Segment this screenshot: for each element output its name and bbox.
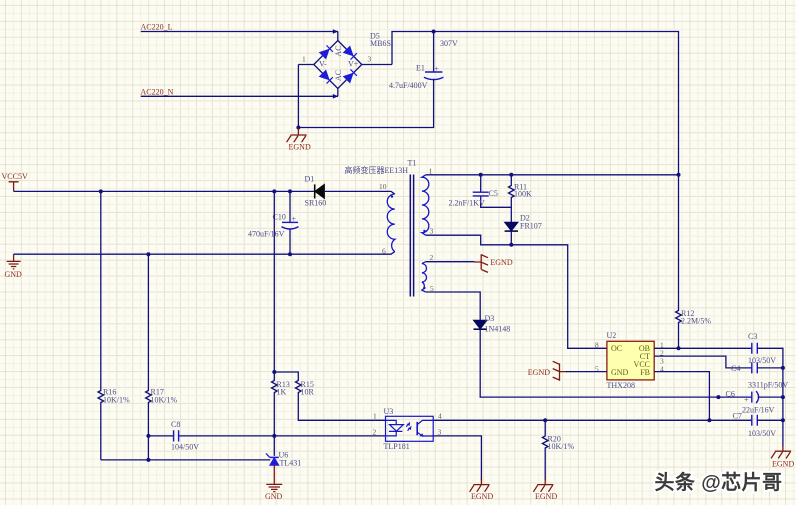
junction C5 tap bbox=[479, 173, 483, 177]
junction OB R12 C3 bbox=[677, 346, 681, 350]
junction R16 tap bbox=[99, 189, 103, 193]
svg-text:EGND: EGND bbox=[772, 459, 794, 468]
wire AC220_L bbox=[141, 31, 338, 33]
svg-text:307V: 307V bbox=[440, 39, 458, 48]
bridge rectifier D5 bbox=[298, 29, 392, 98]
ground EGND opto bbox=[470, 479, 490, 492]
svg-text:EGND: EGND bbox=[535, 492, 557, 501]
svg-text:2.2nF/1KV: 2.2nF/1KV bbox=[449, 199, 485, 208]
resistor R13 bbox=[272, 372, 290, 456]
svg-text:头条 @芯片哥: 头条 @芯片哥 bbox=[655, 470, 783, 494]
wire T1 pin3 to U2 OC bbox=[426, 235, 607, 348]
ground EGND R20 bbox=[533, 479, 553, 492]
svg-text:TLP181: TLP181 bbox=[384, 442, 410, 451]
wire T1 pin5 to D3 bbox=[426, 292, 481, 320]
junction C10 tap bbox=[288, 189, 292, 193]
ground GND left bbox=[5, 254, 23, 279]
svg-text:SR160: SR160 bbox=[305, 199, 327, 208]
junction R17 tap bbox=[146, 252, 150, 256]
resistor R11 bbox=[508, 175, 532, 222]
svg-text:OC: OC bbox=[611, 344, 622, 353]
svg-text:3: 3 bbox=[438, 428, 442, 437]
transistor U6 TL431 bbox=[266, 451, 301, 485]
wire D2 cathode to pin3 run bbox=[510, 231, 512, 245]
svg-text:高频变压器EE13H: 高频变压器EE13H bbox=[345, 165, 409, 175]
svg-text:3311pF/50V: 3311pF/50V bbox=[748, 381, 788, 390]
resistor R20 bbox=[542, 420, 574, 480]
ground EGND pin2 (right-facing) bbox=[474, 254, 488, 272]
junction R20 tap bbox=[543, 418, 547, 422]
svg-text:C5: C5 bbox=[489, 189, 498, 198]
capacitor C4 bbox=[731, 362, 788, 389]
junction C10 bottom bbox=[288, 252, 292, 256]
svg-text:EGND: EGND bbox=[289, 143, 311, 152]
junction C7 rail bbox=[781, 418, 785, 422]
capacitor C6 bbox=[726, 390, 775, 415]
svg-text:1: 1 bbox=[429, 167, 433, 176]
svg-text:GND: GND bbox=[5, 270, 23, 279]
capacitor C8 bbox=[148, 420, 385, 452]
junction C8 on R17 leg bbox=[146, 434, 150, 438]
svg-text:4.7uF/400V: 4.7uF/400V bbox=[389, 81, 428, 90]
svg-text:AC: AC bbox=[334, 70, 343, 81]
junction D2 joins pin3 run bbox=[509, 243, 513, 247]
svg-text:VCC5V: VCC5V bbox=[2, 172, 28, 181]
svg-text:2: 2 bbox=[373, 428, 377, 437]
svg-text:1: 1 bbox=[373, 412, 377, 421]
optocoupler U3 TLP181 bbox=[373, 407, 443, 451]
wire U2 CT to C4 bbox=[654, 356, 752, 368]
wire feedback net to C7 bbox=[433, 419, 752, 421]
svg-text:10: 10 bbox=[379, 182, 387, 191]
svg-text:1: 1 bbox=[302, 55, 306, 64]
svg-text:GND: GND bbox=[611, 368, 629, 377]
svg-text:103/50V: 103/50V bbox=[748, 429, 776, 438]
ground GND under U6 bbox=[265, 484, 283, 501]
wire C7 to right rail bbox=[757, 419, 783, 421]
svg-text:U2: U2 bbox=[607, 331, 617, 340]
capacitor C10 bbox=[248, 191, 299, 254]
svg-text:TL431: TL431 bbox=[280, 459, 302, 468]
T1 core bbox=[410, 175, 413, 297]
svg-text:4: 4 bbox=[438, 412, 442, 421]
junction C4 rail bbox=[781, 366, 785, 370]
svg-text:E1: E1 bbox=[416, 63, 425, 72]
T1 primary winding pins 10-6 bbox=[387, 194, 395, 252]
wire U2 FB down to feedback net bbox=[654, 372, 709, 421]
wire R13 branch bbox=[273, 191, 275, 372]
junction C6 rail bbox=[781, 395, 785, 399]
svg-text:U3: U3 bbox=[384, 407, 394, 416]
wire C6 to right rail bbox=[758, 396, 783, 398]
svg-text:+: + bbox=[744, 395, 749, 404]
junction R11 tap bbox=[509, 173, 513, 177]
svg-text:3: 3 bbox=[430, 227, 434, 236]
svg-text:C7: C7 bbox=[733, 412, 742, 421]
svg-text:22uF/16V: 22uF/16V bbox=[742, 406, 775, 415]
svg-text:V-: V- bbox=[319, 60, 327, 69]
diode D1 bbox=[305, 175, 327, 208]
svg-text:10K/1%: 10K/1% bbox=[151, 396, 178, 405]
wire D3 to VCC aux run bbox=[480, 329, 752, 397]
svg-text:10R: 10R bbox=[301, 388, 315, 397]
svg-text:2: 2 bbox=[430, 253, 434, 262]
svg-text:AC220_L: AC220_L bbox=[141, 23, 173, 32]
junction R17 ref bbox=[146, 458, 150, 462]
svg-text:3: 3 bbox=[368, 55, 372, 64]
wire VCC5V rail bbox=[14, 190, 315, 192]
svg-text:THX208: THX208 bbox=[607, 381, 635, 390]
wire V+ to 307V rail bbox=[392, 32, 679, 175]
junction R13 branch tap bbox=[272, 189, 276, 193]
svg-text:1N4148: 1N4148 bbox=[485, 325, 511, 334]
wire GND rail to T1 pin6 bbox=[14, 252, 395, 255]
resistor R15 bbox=[274, 372, 385, 420]
capacitor C7 bbox=[733, 412, 777, 439]
wire U3 pin3 to EGND bbox=[433, 436, 481, 480]
wire ref rail bbox=[101, 459, 270, 461]
svg-text:V+: V+ bbox=[348, 60, 359, 69]
svg-text:8: 8 bbox=[595, 341, 599, 350]
svg-text:C8: C8 bbox=[171, 420, 180, 429]
svg-text:GND: GND bbox=[265, 492, 283, 501]
svg-text:D1: D1 bbox=[305, 175, 315, 184]
wire D1 to T1 pin10 bbox=[324, 191, 394, 194]
svg-text:C3: C3 bbox=[748, 332, 757, 341]
svg-text:EGND: EGND bbox=[528, 368, 550, 377]
wire V- to EGND and E1 bottom bbox=[298, 32, 433, 128]
wire AC220_N bbox=[141, 95, 338, 97]
svg-text:104/50V: 104/50V bbox=[171, 443, 199, 452]
svg-text:100K: 100K bbox=[514, 190, 532, 199]
wire U2 OB to C3 bbox=[654, 347, 752, 349]
wire C3 to right rail bbox=[757, 348, 783, 446]
op-amp U2 THX208 bbox=[595, 331, 664, 390]
ground EGND bridge bbox=[287, 128, 307, 142]
junction E1 top bbox=[432, 30, 436, 34]
wire EGND to U2 GND bbox=[566, 371, 607, 373]
T1 secondary winding pins 1-3 bbox=[422, 175, 429, 235]
svg-text:2.2M/5%: 2.2M/5% bbox=[681, 317, 711, 326]
junction FB tee bbox=[707, 418, 711, 422]
svg-text:+: + bbox=[292, 215, 297, 224]
ground EGND right rail bbox=[771, 445, 791, 458]
svg-text:AC: AC bbox=[334, 45, 343, 56]
capacitor C5 bbox=[449, 175, 512, 208]
svg-text:470uF/16V: 470uF/16V bbox=[248, 230, 285, 239]
diode D3 bbox=[474, 314, 511, 334]
junction R13 R15 tee bbox=[272, 370, 276, 374]
svg-text:1K: 1K bbox=[277, 388, 287, 397]
svg-text:C6: C6 bbox=[726, 390, 735, 399]
wire T1 pin2 to EGND bbox=[426, 261, 475, 263]
svg-text:T1: T1 bbox=[408, 159, 417, 168]
power VCC5V bbox=[2, 172, 28, 191]
capacitor C3 bbox=[748, 332, 776, 365]
resistor R16 bbox=[98, 191, 130, 460]
svg-text:+: + bbox=[434, 64, 439, 73]
svg-text:FR107: FR107 bbox=[520, 222, 542, 231]
resistor R12 bbox=[676, 175, 712, 348]
diode D2 bbox=[505, 214, 542, 232]
capacitor E1 bbox=[389, 63, 443, 90]
svg-text:MB6S: MB6S bbox=[370, 39, 391, 48]
svg-text:EGND: EGND bbox=[471, 492, 493, 501]
svg-text:D3: D3 bbox=[485, 314, 495, 323]
svg-text:AC220_N: AC220_N bbox=[141, 88, 174, 97]
svg-text:EGND: EGND bbox=[490, 258, 512, 267]
wire C4 to right rail bbox=[757, 367, 783, 369]
svg-text:FB: FB bbox=[640, 368, 650, 377]
svg-text:10K/1%: 10K/1% bbox=[103, 396, 130, 405]
junction rail pin1 bbox=[677, 173, 681, 177]
svg-text:C4: C4 bbox=[731, 364, 740, 373]
svg-text:10K/1%: 10K/1% bbox=[548, 442, 575, 451]
svg-text:6: 6 bbox=[382, 247, 386, 256]
junction C8 meets cathode run bbox=[272, 434, 276, 438]
junction U2 VCC tee bbox=[716, 395, 720, 399]
T1 aux winding pins 2-5 bbox=[422, 262, 427, 292]
transformer T1 bbox=[345, 159, 435, 297]
wire T1 pin1 to 307V rail bbox=[426, 174, 679, 176]
resistor R17 bbox=[146, 254, 178, 460]
ground EGND U2 GND pin (left-facing) bbox=[553, 361, 567, 380]
junction EGND corner bbox=[296, 126, 300, 130]
